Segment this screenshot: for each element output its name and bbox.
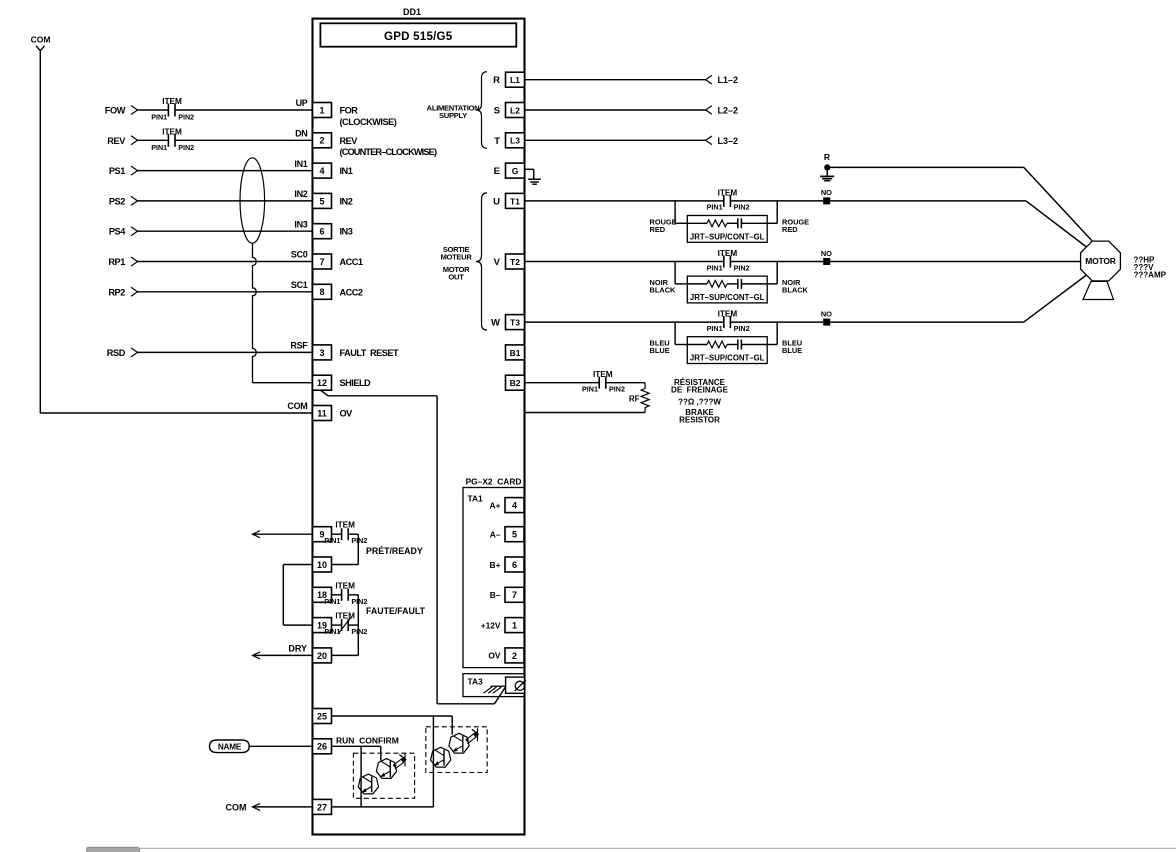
svg-text:PIN2: PIN2 — [178, 113, 194, 122]
svg-text:RED: RED — [782, 225, 798, 234]
svg-text:PIN1: PIN1 — [582, 385, 598, 394]
terminal 18 — [313, 587, 332, 602]
wire RF return to drive — [525, 412, 646, 414]
svg-text:GPD 515/G5: GPD 515/G5 — [384, 30, 453, 43]
snubber network JRT-SUP/CONT-GL on T3 — [650, 322, 803, 363]
svg-text:PIN2: PIN2 — [734, 203, 750, 212]
relay contact ITEM on 9 — [324, 521, 367, 546]
node R with ground — [820, 152, 834, 181]
svg-text:5: 5 — [512, 530, 517, 540]
relay contact ITEM on 18 — [324, 581, 367, 606]
terminal T1 — [493, 193, 524, 208]
svg-text:8: 8 — [319, 287, 324, 297]
input RP1 — [108, 257, 312, 267]
svg-text:20: 20 — [317, 651, 327, 661]
terminal 2 (REV) — [295, 129, 358, 148]
wire 18/19 to 20 — [332, 595, 359, 656]
wire 10 to 19 loop — [283, 565, 312, 626]
svg-text:L1–2: L1–2 — [718, 75, 739, 85]
svg-text:+12V: +12V — [481, 620, 501, 630]
svg-text:IN1: IN1 — [340, 166, 353, 176]
label SORTIE MOTEUR — [440, 245, 472, 261]
svg-text:BLUE: BLUE — [650, 346, 670, 355]
TA3 box — [463, 674, 525, 697]
svg-text:3: 3 — [319, 348, 324, 358]
svg-text:A+: A+ — [490, 500, 501, 510]
svg-text:6: 6 — [319, 227, 324, 237]
svg-text:PIN1: PIN1 — [707, 263, 723, 272]
terminal 10 — [313, 557, 332, 572]
terminal 25 — [313, 709, 332, 724]
input RSD — [107, 348, 313, 358]
svg-text:R: R — [493, 75, 500, 86]
wire 26 to opto — [332, 745, 381, 747]
svg-text:L2–2: L2–2 — [718, 106, 739, 116]
svg-text:REV: REV — [340, 136, 359, 146]
wire T3 output — [525, 321, 824, 323]
svg-text:IN1: IN1 — [294, 159, 307, 169]
svg-text:T2: T2 — [510, 257, 520, 267]
svg-text:NAME: NAME — [218, 742, 242, 751]
PG card terminal 5 (A-) — [490, 527, 524, 542]
svg-text:1: 1 — [512, 621, 517, 631]
svg-text:BLACK: BLACK — [650, 286, 677, 295]
svg-text:IN3: IN3 — [294, 219, 307, 229]
svg-text:MOTOR: MOTOR — [1085, 256, 1116, 266]
PG card terminal 2 (OV) — [488, 648, 524, 663]
svg-text:JRT–SUP/CONT–GL: JRT–SUP/CONT–GL — [690, 293, 765, 302]
svg-text:ITEM: ITEM — [162, 97, 182, 106]
svg-text:???AMP: ???AMP — [1134, 270, 1167, 279]
svg-text:L2: L2 — [510, 105, 520, 115]
PG-X2 card outline — [463, 488, 525, 668]
snubber network JRT-SUP/CONT-GL on T1 — [650, 201, 810, 242]
label RUN CONFIRM — [336, 736, 399, 746]
svg-text:PRÉT/READY: PRÉT/READY — [366, 546, 423, 556]
svg-text:PIN1: PIN1 — [324, 597, 340, 606]
title box GPD 515/G5 — [320, 23, 516, 46]
terminal B1 — [506, 345, 525, 360]
wire L3-2 with connector — [525, 136, 739, 146]
svg-text:PIN2: PIN2 — [351, 627, 367, 636]
svg-text:IN3: IN3 — [340, 227, 353, 237]
svg-text:DRY: DRY — [288, 643, 307, 653]
svg-text:7: 7 — [512, 590, 517, 600]
svg-text:RSD: RSD — [107, 348, 126, 358]
svg-text:DE FREINAGE: DE FREINAGE — [671, 386, 729, 395]
svg-text:RF: RF — [629, 395, 640, 404]
input REV with relay contact ITEM PIN1/PIN2 — [107, 127, 312, 152]
TA3 shield terminal — [506, 677, 526, 693]
drive block DD1 outline — [313, 19, 525, 835]
svg-text:T3: T3 — [510, 318, 520, 328]
wire COM to terminal 11 — [40, 412, 312, 414]
terminal L1 — [493, 72, 524, 87]
chassis ground at TA3 — [484, 686, 506, 693]
input PS4 — [109, 227, 313, 237]
optocoupler pair A/B (run confirm left) — [358, 746, 406, 794]
svg-text:25: 25 — [317, 711, 327, 721]
svg-text:PIN2: PIN2 — [734, 263, 750, 272]
svg-text:PIN1: PIN1 — [324, 536, 340, 545]
svg-text:DN: DN — [295, 129, 307, 139]
svg-text:L3: L3 — [510, 136, 520, 146]
svg-text:PS2: PS2 — [109, 196, 125, 206]
wire T3 to motor — [830, 275, 1086, 322]
svg-text:DD1: DD1 — [403, 7, 421, 17]
svg-text:B–: B– — [490, 590, 501, 600]
svg-text:COM: COM — [226, 802, 247, 812]
svg-text:??Ω ,???W: ??Ω ,???W — [678, 397, 721, 406]
motor M1 — [1081, 241, 1121, 299]
label motor ratings — [1134, 255, 1167, 279]
terminal L2 — [494, 103, 525, 118]
svg-text:RP1: RP1 — [108, 257, 125, 267]
svg-text:ITEM: ITEM — [162, 127, 182, 136]
svg-text:PIN1: PIN1 — [707, 203, 723, 212]
svg-text:SUPPLY: SUPPLY — [439, 111, 467, 120]
terminal L3 — [494, 133, 524, 148]
svg-text:10: 10 — [317, 560, 327, 570]
svg-text:BLUE: BLUE — [782, 346, 802, 355]
relay contact ITEM on B2 — [582, 370, 625, 393]
svg-text:PIN1: PIN1 — [707, 324, 723, 333]
svg-text:RESISTOR: RESISTOR — [679, 416, 720, 425]
terminal T3 — [491, 315, 524, 330]
wire 9 to 10 — [332, 534, 359, 564]
svg-text:ITEM: ITEM — [718, 249, 738, 258]
svg-text:ACC2: ACC2 — [340, 287, 363, 297]
svg-text:RSF: RSF — [290, 341, 308, 351]
svg-text:SHIELD: SHIELD — [340, 378, 372, 388]
svg-text:4: 4 — [512, 501, 517, 511]
terminal 12 (SHIELD) — [313, 375, 372, 390]
cable shield ellipse — [240, 158, 265, 243]
svg-text:ACC1: ACC1 — [340, 257, 363, 267]
wire 27 to opto — [332, 806, 434, 808]
output arrow DRY row 20 — [253, 643, 313, 659]
svg-text:FOR: FOR — [340, 106, 359, 116]
wire R to motor — [829, 167, 1092, 241]
svg-text:W: W — [491, 318, 500, 329]
svg-text:B1: B1 — [510, 348, 521, 358]
snubber network JRT-SUP/CONT-GL on T2 — [650, 262, 809, 303]
svg-text:V: V — [494, 257, 501, 268]
label TA1 — [468, 494, 484, 504]
wire 25 to opto — [332, 715, 453, 717]
terminal 8 (ACC2) — [291, 280, 363, 299]
svg-text:PIN2: PIN2 — [351, 597, 367, 606]
svg-text:B2: B2 — [510, 378, 521, 388]
svg-text:PG–X2 CARD: PG–X2 CARD — [466, 477, 522, 487]
svg-text:2: 2 — [512, 651, 517, 661]
svg-text:TA3: TA3 — [468, 677, 484, 687]
label FAUTE/FAULT — [366, 606, 426, 616]
scrollbar thumb — [87, 847, 140, 852]
svg-text:ITEM: ITEM — [718, 188, 738, 197]
wire 26 into optocoupler A — [360, 746, 362, 807]
wire NAME to 26 — [249, 745, 313, 747]
svg-text:26: 26 — [317, 742, 327, 752]
svg-text:G: G — [512, 166, 519, 176]
svg-text:U: U — [493, 196, 500, 207]
svg-text:ITEM: ITEM — [593, 370, 613, 379]
label DD1 — [403, 7, 421, 17]
svg-text:OUT: OUT — [448, 272, 464, 281]
terminal 20 — [313, 648, 332, 663]
svg-text:A–: A– — [490, 530, 501, 540]
tag NAME — [210, 740, 250, 753]
svg-text:L3–2: L3–2 — [718, 136, 739, 146]
wire T2 output — [525, 261, 824, 263]
label PG-X2 CARD — [466, 477, 522, 487]
svg-text:NO: NO — [821, 188, 832, 197]
wire 25 into optocoupler D — [451, 716, 453, 735]
svg-text:FAULT RESET: FAULT RESET — [340, 348, 400, 358]
svg-text:JRT–SUP/CONT–GL: JRT–SUP/CONT–GL — [690, 232, 765, 241]
PG card terminal 4 (A+) — [490, 498, 524, 513]
terminal G — [494, 163, 525, 178]
svg-text:RED: RED — [650, 225, 666, 234]
svg-text:PIN2: PIN2 — [609, 385, 625, 394]
relay contact ITEM on T1 — [707, 188, 750, 211]
svg-text:PIN1: PIN1 — [151, 113, 167, 122]
input PS1 — [109, 166, 313, 176]
relay contact ITEM on T3 — [707, 310, 750, 333]
svg-text:R: R — [824, 152, 830, 162]
label PRET/READY — [366, 546, 423, 556]
svg-text:(COUNTER–CLOCKWISE): (COUNTER–CLOCKWISE) — [340, 147, 437, 157]
input RP2 — [108, 287, 312, 297]
output arrow row 9 — [253, 531, 313, 538]
terminal 7 (ACC1) — [291, 250, 363, 269]
svg-text:PIN1: PIN1 — [324, 627, 340, 636]
svg-text:OV: OV — [488, 651, 501, 661]
wire T1 to motor — [830, 201, 1086, 247]
terminal 3 (FAULT RESET) — [290, 341, 399, 360]
relay contact ITEM (NC) on 19 — [324, 612, 367, 637]
svg-text:TA1: TA1 — [468, 494, 484, 504]
svg-text:5: 5 — [319, 196, 324, 206]
svg-text:RP2: RP2 — [108, 287, 125, 297]
PG card terminal 1 (+12V) — [481, 618, 524, 633]
svg-text:REV: REV — [107, 136, 126, 146]
contact NO on T1 — [821, 188, 832, 204]
svg-text:JRT–SUP/CONT–GL: JRT–SUP/CONT–GL — [690, 354, 765, 363]
terminal B2 — [506, 375, 525, 390]
terminal 1 (FOR) — [296, 98, 359, 117]
dashed enclosure right opto — [426, 727, 487, 773]
svg-text:11: 11 — [317, 408, 327, 418]
relay contact ITEM on T2 — [707, 249, 750, 272]
brace input supply group — [476, 72, 487, 149]
terminal 9 — [313, 527, 332, 542]
svg-text:PS1: PS1 — [109, 166, 125, 176]
contact NO on T3 — [821, 309, 832, 325]
wire T1 output — [525, 200, 824, 202]
wire COM vertical — [39, 51, 41, 413]
svg-text:2: 2 — [319, 136, 324, 146]
svg-text:L1: L1 — [510, 75, 520, 85]
label ALIMENTATION SUPPLY — [427, 104, 480, 121]
terminal 5 (IN2) — [294, 189, 352, 208]
svg-text:COM: COM — [287, 401, 307, 411]
svg-text:PIN1: PIN1 — [151, 143, 167, 152]
wire B2 to brake resistor — [525, 382, 646, 384]
svg-text:SC0: SC0 — [291, 250, 308, 260]
input FOW with relay contact ITEM PIN1/PIN2 — [105, 97, 313, 122]
svg-text:7: 7 — [319, 257, 324, 267]
svg-text:6: 6 — [512, 560, 517, 570]
label (CLOCKWISE) — [340, 117, 397, 127]
terminal 6 (IN3) — [294, 219, 352, 238]
label brake resistor — [671, 378, 729, 424]
svg-text:PIN2: PIN2 — [734, 324, 750, 333]
scrollbar track — [139, 848, 1176, 852]
svg-text:UP: UP — [296, 98, 308, 108]
svg-text:T1: T1 — [510, 196, 520, 206]
input PS2 — [109, 196, 313, 206]
svg-text:BLACK: BLACK — [782, 286, 809, 295]
label MOTOR OUT — [443, 265, 470, 282]
svg-text:ITEM: ITEM — [718, 310, 738, 319]
svg-text:ITEM: ITEM — [335, 612, 355, 621]
svg-text:FAUTE/FAULT: FAUTE/FAULT — [366, 606, 426, 616]
svg-text:NO: NO — [821, 309, 832, 318]
brace motor output group — [476, 193, 487, 330]
PG card terminal 6 (B+) — [490, 557, 524, 572]
svg-text:FOW: FOW — [105, 106, 126, 116]
ground at terminal G — [525, 169, 541, 184]
svg-text:SC1: SC1 — [291, 280, 308, 290]
contact NO on T2 — [821, 249, 832, 265]
optocoupler pair C/D (run confirm right) — [431, 716, 479, 807]
output arrow COM row 27 — [226, 802, 313, 812]
svg-text:PS4: PS4 — [109, 227, 126, 237]
svg-text:IN2: IN2 — [294, 189, 307, 199]
svg-text:ITEM: ITEM — [335, 581, 355, 590]
terminal 4 (IN1) — [294, 159, 352, 178]
wire shield from terminal 12 to PG card ground — [321, 390, 506, 704]
wire L2-2 with connector — [525, 106, 739, 116]
svg-text:COM: COM — [31, 35, 51, 45]
svg-text:(CLOCKWISE): (CLOCKWISE) — [340, 117, 397, 127]
svg-text:4: 4 — [319, 166, 324, 176]
terminal 26 — [313, 739, 332, 754]
svg-text:ITEM: ITEM — [335, 521, 355, 530]
node COM (top-left antenna) — [31, 35, 51, 51]
terminal 11 (OV) — [287, 401, 353, 420]
wire L1-2 with connector — [525, 75, 739, 85]
PG card terminal 7 (B-) — [490, 587, 524, 602]
svg-text:NO: NO — [821, 249, 832, 258]
svg-text:E: E — [494, 166, 500, 177]
svg-text:B+: B+ — [490, 560, 501, 570]
wire T2 to motor — [830, 261, 1080, 263]
terminal T2 — [494, 254, 525, 269]
svg-text:IN2: IN2 — [340, 196, 353, 206]
wire shield drain to terminal 12 (with hops) — [253, 243, 313, 383]
dashed enclosure left opto — [353, 753, 414, 798]
svg-text:27: 27 — [317, 802, 327, 812]
terminal 19 — [313, 618, 332, 633]
svg-text:PIN2: PIN2 — [351, 536, 367, 545]
svg-text:MOTEUR: MOTEUR — [440, 252, 472, 261]
svg-text:RUN CONFIRM: RUN CONFIRM — [336, 736, 399, 746]
svg-text:T: T — [494, 136, 500, 147]
svg-text:PIN2: PIN2 — [178, 143, 194, 152]
resistor RF — [629, 383, 649, 413]
svg-text:1: 1 — [319, 105, 324, 115]
svg-text:S: S — [494, 106, 500, 117]
svg-text:12: 12 — [317, 378, 327, 388]
label (COUNTER-CLOCKWISE) — [340, 147, 437, 157]
terminal 27 — [313, 799, 332, 814]
svg-text:OV: OV — [340, 409, 354, 419]
